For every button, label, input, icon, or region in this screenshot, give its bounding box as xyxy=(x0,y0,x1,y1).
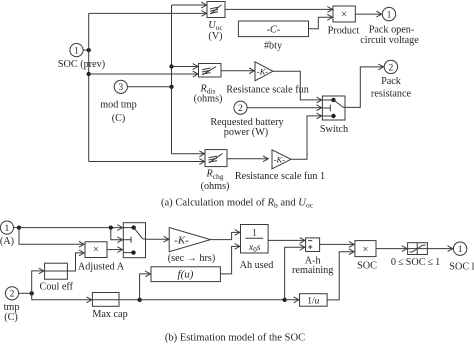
svg-text:1/u: 1/u xyxy=(307,297,319,307)
wire Rchg to gain1 xyxy=(227,158,268,160)
svg-text:1: 1 xyxy=(252,229,257,239)
svg-text:-K-: -K- xyxy=(274,156,285,165)
svg-text:Max cap: Max cap xyxy=(92,309,127,320)
svg-text:Product: Product xyxy=(328,25,360,36)
svg-text:Adjusted A: Adjusted A xyxy=(78,262,125,273)
svg-text:-K-: -K- xyxy=(174,234,189,246)
block 1/u xyxy=(300,294,328,307)
svg-text:x0s: x0s xyxy=(248,243,261,254)
wire tmp to Rdis input1 xyxy=(172,66,199,68)
svg-text:2: 2 xyxy=(10,289,15,300)
svg-text:1: 1 xyxy=(5,223,10,234)
output port 1 SOC level xyxy=(453,242,466,255)
wire tmp to Max cap xyxy=(32,293,92,300)
wire I to switchb input2 xyxy=(111,228,123,240)
wire sum to SOC product xyxy=(320,243,355,245)
svg-text:Coul eff: Coul eff xyxy=(40,282,74,293)
wire SOC vertical bus xyxy=(88,13,90,161)
block f(u) xyxy=(151,267,220,282)
svg-text:Ah used: Ah used xyxy=(240,260,274,271)
node junction SOC bus xyxy=(87,48,91,52)
svg-text:1: 1 xyxy=(74,46,79,57)
node junction to sum xyxy=(282,298,286,302)
wire port3 to junction xyxy=(127,86,171,88)
svg-text:0 ≤ SOC ≤ 1: 0 ≤ SOC ≤ 1 xyxy=(391,257,440,268)
svg-text:f(u): f(u) xyxy=(178,269,194,281)
block Max cap xyxy=(92,293,119,307)
svg-text:remaining: remaining xyxy=(292,265,333,276)
constant block -C- #bty xyxy=(238,21,308,37)
saturation block 0<=SOC<=1 xyxy=(408,243,428,255)
wire Product to out port 1 xyxy=(355,13,381,15)
wire f(u) to integrator input2 xyxy=(220,246,239,274)
wire tmp b to junction xyxy=(19,292,32,294)
wire Coul eff to adjusted A input2 xyxy=(67,253,84,271)
wire I down to adjusted A xyxy=(19,228,84,245)
wire SOC to Uoc input2 xyxy=(89,12,207,14)
input port 1 current I (A) xyxy=(0,221,13,234)
svg-text:I (A): I (A) xyxy=(0,236,14,247)
svg-text:power (W): power (W) xyxy=(224,127,268,138)
wire port2 to switch input2 xyxy=(247,107,322,109)
integrator block Ah used xyxy=(241,225,269,254)
svg-text:(C): (C) xyxy=(112,113,126,124)
switch block (b) xyxy=(123,223,145,258)
wire tmp vertical bus xyxy=(171,5,173,154)
input port 3 mod tmp xyxy=(114,80,127,93)
switch block (a) xyxy=(322,96,345,120)
svg-text:×: × xyxy=(341,10,347,21)
lookup block Uoc xyxy=(207,2,225,18)
svg-text:Resistance scale fun: Resistance scale fun xyxy=(226,84,309,95)
svg-text:(b) Estimation model of the S: (b) Estimation model of the SOC xyxy=(165,333,305,344)
wire gain to integrator input1 xyxy=(211,232,240,239)
svg-text:3: 3 xyxy=(118,82,123,93)
svg-text:Resistance scale fun 1: Resistance scale fun 1 xyxy=(235,171,325,182)
wire tmp to Rchg input1 xyxy=(172,153,205,155)
lookup block Rchg xyxy=(205,150,227,167)
svg-text:(C): (C) xyxy=(4,312,18,323)
gain resistance scale fun 1 xyxy=(272,150,291,169)
svg-text:Rchg: Rchg xyxy=(205,169,223,181)
lookup block Rdis xyxy=(199,64,222,78)
wire gain1 to switch input3 xyxy=(291,116,322,159)
wire SOC to Rdis input2 xyxy=(89,73,198,75)
wire Uoc to Product xyxy=(225,8,333,10)
svg-text:2: 2 xyxy=(389,62,394,73)
svg-text:(a) Calculation model of Rb a: (a) Calculation model of Rb and Uoc xyxy=(161,198,314,210)
svg-text:SOC: SOC xyxy=(357,261,377,272)
input port 2 requested battery power xyxy=(234,101,247,114)
svg-text:1: 1 xyxy=(387,10,392,21)
sum block A-h remaining xyxy=(306,238,320,252)
wire junction to sum input2 xyxy=(285,247,305,299)
svg-text:-K-: -K- xyxy=(257,68,268,77)
node junction SOC to Rdis xyxy=(87,72,91,76)
node junction I top xyxy=(17,225,21,229)
svg-text:(ohms): (ohms) xyxy=(201,181,230,192)
wire Max cap to 1/u xyxy=(119,299,299,301)
wire constant to Product xyxy=(309,17,333,29)
wire SOC to Rchg input2 xyxy=(89,161,205,163)
gain resistance scale fun xyxy=(255,62,273,81)
wire Rdis to gain xyxy=(221,70,254,72)
wire saturation to out port 1 xyxy=(427,248,452,250)
node junction tmp b xyxy=(30,291,34,295)
wire tmp to Uoc input1 xyxy=(172,4,207,6)
svg-text:(sec → hrs): (sec → hrs) xyxy=(168,253,216,264)
svg-text:(ohms): (ohms) xyxy=(194,94,223,105)
block Coul eff xyxy=(45,263,68,279)
wire tmp to Coul eff xyxy=(32,271,44,293)
svg-text:1: 1 xyxy=(458,244,463,255)
wire port1b to junction xyxy=(14,227,20,229)
output port 2 pack resistance xyxy=(384,60,397,73)
svg-text:(V): (V) xyxy=(208,31,222,42)
product block adjusted A xyxy=(85,242,107,258)
node junction to f(u) xyxy=(137,298,141,302)
svg-text:Pack: Pack xyxy=(381,76,402,87)
wire switchb to gain xyxy=(146,238,169,240)
node junction I to control xyxy=(109,225,113,229)
svg-text:×: × xyxy=(362,244,368,255)
wire junction to f(u) xyxy=(140,274,151,300)
svg-text:resistance: resistance xyxy=(371,88,412,99)
product block SOC xyxy=(355,241,376,257)
input port 1 SOC (prev) xyxy=(70,44,83,57)
svg-text:mod tmp: mod tmp xyxy=(100,100,137,111)
svg-text:2: 2 xyxy=(238,103,243,114)
gain -K- sec to hrs xyxy=(169,228,210,252)
wire port1 to junction xyxy=(83,49,89,51)
wire I to switchb input1 xyxy=(19,227,123,229)
node junction tmp to Rdis xyxy=(169,64,173,68)
svg-text:Pack open-: Pack open- xyxy=(369,24,415,35)
wire 1/u to SOC product input2 xyxy=(327,252,354,300)
svg-text:SOC (prev): SOC (prev) xyxy=(58,59,105,70)
input port 2 tmp (b) xyxy=(5,287,18,300)
wire switch to out port 2 xyxy=(345,67,384,108)
node junction tmp bus xyxy=(169,85,173,89)
product block U1 xyxy=(333,6,355,22)
wire SOC to saturation xyxy=(376,248,407,250)
output port 1 pack open-circuit voltage xyxy=(382,7,395,20)
wire gain to switch input1 xyxy=(273,71,322,100)
wire adjusted A to switchb input3 xyxy=(107,249,123,251)
svg-text:circuit voltage: circuit voltage xyxy=(360,35,419,46)
svg-text:×: × xyxy=(93,245,99,256)
svg-text:-C-: -C- xyxy=(267,24,281,35)
svg-text:SOC lev: SOC lev xyxy=(449,262,474,273)
svg-text:#bty: #bty xyxy=(264,41,283,52)
svg-text:Switch: Switch xyxy=(320,124,348,135)
wire integrator to sum input1 xyxy=(268,239,305,241)
